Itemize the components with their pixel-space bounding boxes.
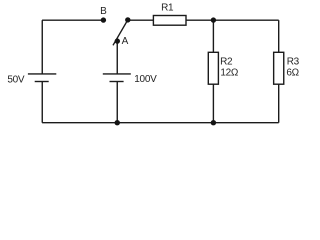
node B junction dot: [101, 17, 106, 22]
wire left side lower (50V battery to bottom corner): [41, 82, 43, 123]
svg-text:50V: 50V: [7, 75, 25, 86]
wire node A to 100V battery: [116, 41, 118, 74]
battery B2 100V short plate: [110, 81, 124, 83]
switch S1 blade: [113, 20, 128, 46]
switch pivot junction dot: [125, 17, 130, 22]
battery B2 100V long plate: [103, 73, 131, 75]
svg-text:100V: 100V: [134, 74, 157, 85]
wire R2 branch upper: [212, 20, 214, 52]
junction dot bottom of R2 branch: [211, 120, 216, 125]
node A junction dot: [115, 38, 120, 43]
wire R1 to top-right corner: [186, 19, 279, 21]
svg-text:R3: R3: [287, 57, 300, 68]
svg-text:B: B: [100, 6, 107, 17]
resistor R3 body: [274, 52, 284, 84]
svg-text:12Ω: 12Ω: [220, 67, 239, 78]
wire R2 branch lower: [212, 84, 214, 123]
wire 100V battery to bottom junction: [116, 82, 118, 123]
resistor R2 body: [208, 52, 218, 84]
junction dot bottom of battery branch: [115, 120, 120, 125]
svg-text:6Ω: 6Ω: [286, 67, 299, 78]
resistor R1 body: [153, 16, 186, 26]
wire bottom: [42, 122, 279, 124]
wire top-left segment (corner to node B): [42, 19, 103, 21]
battery B1 50V long plate: [28, 73, 56, 75]
wire right side upper (corner to R3): [278, 20, 280, 52]
wire right side lower (R3 to bottom corner): [278, 84, 280, 123]
wire switch pivot to R1: [128, 19, 154, 21]
svg-text:A: A: [122, 36, 129, 47]
battery B1 50V short plate: [35, 81, 49, 83]
wire left side upper (corner to 50V battery): [41, 20, 43, 74]
svg-text:R2: R2: [220, 57, 233, 68]
svg-text:R1: R1: [161, 3, 174, 14]
junction dot top of R2 branch: [211, 17, 216, 22]
